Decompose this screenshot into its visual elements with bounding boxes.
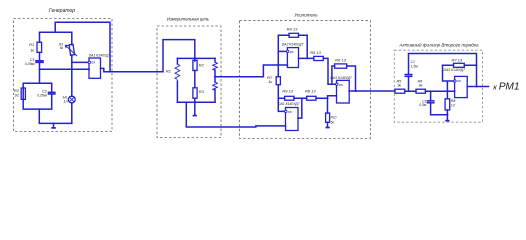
svg-text:DA3 К140УД7: DA3 К140УД7 — [330, 76, 352, 80]
svg-text:R8 13: R8 13 — [305, 89, 316, 94]
svg-text:к РМ1: к РМ1 — [493, 82, 519, 93]
svg-text:R4 13: R4 13 — [287, 27, 298, 32]
svg-text:R3: R3 — [199, 89, 205, 94]
svg-text:∞: ∞ — [457, 78, 461, 84]
svg-text:0,25мк: 0,25мк — [37, 94, 47, 98]
svg-text:13: 13 — [451, 104, 455, 108]
svg-text:Активный фильтр Второго порядк: Активный фильтр Второго порядка — [398, 42, 479, 48]
svg-text:R1: R1 — [166, 68, 171, 73]
svg-text:91: 91 — [15, 92, 19, 97]
svg-text:DA2 К140УД7: DA2 К140УД7 — [282, 43, 304, 47]
svg-text:С1: С1 — [411, 60, 415, 64]
svg-text:R7 13: R7 13 — [451, 57, 462, 62]
svg-text:R2: R2 — [199, 63, 205, 68]
svg-text:R10: R10 — [331, 116, 337, 120]
svg-text:С1: С1 — [30, 57, 35, 62]
svg-text:Усилитель: Усилитель — [294, 12, 318, 17]
svg-text:9к: 9к — [397, 84, 401, 88]
svg-text:5к: 5к — [60, 46, 64, 50]
svg-text:1,5м: 1,5м — [411, 64, 419, 68]
svg-text:R9 13: R9 13 — [282, 89, 293, 94]
svg-text:0,25мк: 0,25мк — [25, 62, 35, 66]
svg-text:DA1 К140УД7: DA1 К140УД7 — [89, 54, 111, 58]
svg-text:R1: R1 — [29, 42, 34, 47]
svg-text:9к: 9к — [419, 84, 423, 88]
svg-text:5к: 5к — [331, 120, 335, 124]
svg-text:Измерительная цепь: Измерительная цепь — [167, 17, 209, 22]
svg-text:∞: ∞ — [91, 60, 95, 66]
svg-text:∞: ∞ — [288, 110, 292, 116]
svg-text:Генератор: Генератор — [49, 8, 75, 14]
svg-text:1л: 1л — [63, 99, 68, 104]
svg-text:R6 13: R6 13 — [335, 58, 346, 63]
svg-text:DA5 К140УД7: DA5 К140УД7 — [444, 68, 466, 72]
svg-text:R8: R8 — [451, 99, 456, 103]
svg-text:DA1 К140УД7: DA1 К140УД7 — [278, 102, 300, 106]
svg-text:R5 13: R5 13 — [310, 50, 321, 55]
svg-text:∞: ∞ — [339, 82, 343, 88]
svg-text:0,5м: 0,5м — [419, 103, 427, 107]
svg-text:∞: ∞ — [290, 50, 294, 56]
